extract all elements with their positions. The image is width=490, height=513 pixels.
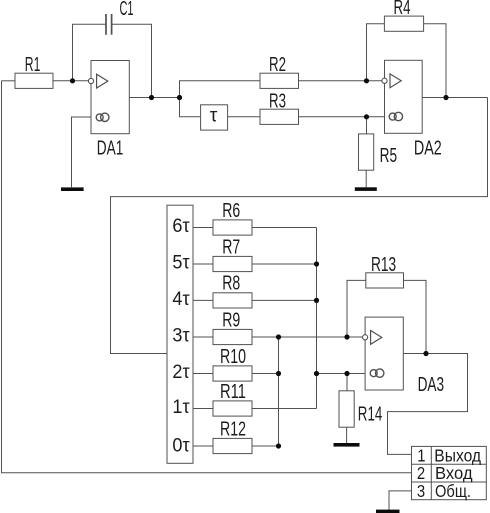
wire feed from DA2 output down and left to delay line input [111, 98, 488, 354]
svg-text:R3: R3 [269, 90, 286, 112]
wire R14 top lead [346, 374, 348, 391]
wire R9 output to DA3 inverting input [252, 336, 363, 338]
wire tau output to R3 [228, 116, 260, 118]
wire R12 output to left bus [252, 445, 279, 447]
svg-text:DA1: DA1 [97, 137, 124, 159]
wire DA1 lower input to ground [72, 117, 92, 187]
wire R4 feedback left vertical [367, 24, 385, 81]
resistor R11 [213, 401, 252, 416]
resistor R2 [260, 73, 299, 88]
resistor R10 [213, 366, 252, 381]
wire R13 feedback left lead [347, 280, 366, 337]
wire connector pin 3 (Общ.) to ground [389, 491, 412, 510]
wire C1 feedback left vertical and top [73, 24, 107, 81]
wire branch up to R2 [180, 81, 261, 98]
ground bar below DA1 [61, 187, 84, 191]
resistor R9 [213, 329, 252, 344]
op-amp DA2 triangle [390, 74, 401, 88]
wire R13 right lead down to DA3 output [404, 280, 427, 353]
node junction dot R10/left bus [276, 371, 281, 376]
node junction dot R1/DA1 input [70, 78, 75, 83]
wire tap 5τ stub [193, 263, 213, 265]
svg-text:3τ: 3τ [172, 324, 190, 346]
svg-text:1: 1 [417, 446, 425, 465]
wire R6 output to right bus [252, 227, 317, 229]
svg-text:Вход: Вход [435, 464, 473, 483]
svg-text:R7: R7 [222, 235, 240, 258]
svg-text:R14: R14 [358, 403, 382, 425]
svg-text:C1: C1 [120, 0, 134, 20]
svg-text:0τ: 0τ [172, 434, 190, 456]
capacitor C1 plates [106, 14, 112, 35]
ground bar below R5 [355, 187, 377, 191]
wire R1 left lead [2, 80, 16, 82]
op-amp DA1 infinity symbol [96, 113, 109, 121]
node junction dot R4/DA2 output [443, 95, 448, 100]
node junction dot R3/R5/DA2 input [364, 114, 369, 119]
wire C1 right lead down to DA1 output [112, 24, 152, 97]
svg-text:DA2: DA2 [414, 136, 442, 159]
wire tap 0τ stub [193, 445, 213, 447]
node junction dot R8/right bus [314, 298, 319, 303]
node junction dot C1/DA1 output [149, 95, 154, 100]
svg-text:5τ: 5τ [172, 251, 190, 273]
resistor R12 [213, 438, 252, 453]
connector table outline [412, 446, 487, 499]
node junction dot R7/right bus [314, 261, 319, 266]
node junction dot R14/DA3 lower input [344, 371, 349, 376]
wire left summing bus [278, 337, 280, 446]
svg-text:2: 2 [417, 464, 425, 483]
svg-text:4τ: 4τ [172, 288, 190, 310]
op-amp DA1 input circle [88, 78, 93, 83]
resistor R4 [384, 16, 423, 31]
wire R14 bottom lead to ground [346, 427, 348, 443]
op-amp DA1 box [91, 61, 129, 134]
op-amp DA3 triangle [371, 331, 382, 345]
wire R2 output to DA2 inverting input [299, 80, 383, 82]
svg-text:1τ: 1τ [172, 396, 190, 418]
wire R3 output to DA2 lower input [299, 116, 385, 118]
wire R5 bottom lead to ground [365, 170, 367, 187]
node junction dot R12/left bus [276, 443, 281, 448]
wire R10 output to left bus [252, 373, 279, 375]
svg-text:R12: R12 [220, 417, 246, 440]
svg-text:R10: R10 [220, 344, 246, 367]
op-amp DA3 infinity symbol [370, 369, 384, 377]
wire R8 output to right bus [252, 299, 317, 301]
wire R4 right lead down to DA2 output [424, 24, 446, 98]
svg-text:R8: R8 [222, 271, 240, 294]
ground bar below connector pin 3 [376, 510, 400, 513]
svg-text:Общ.: Общ. [435, 482, 471, 502]
op-amp DA2 infinity symbol [389, 112, 402, 120]
svg-text:2τ: 2τ [172, 361, 190, 383]
op-amp DA2 box [385, 60, 423, 133]
resistor R3 [260, 109, 299, 124]
delay line tap box [167, 205, 193, 463]
resistor R5 [359, 134, 374, 170]
wire tap 6τ stub [193, 227, 213, 229]
resistor R14 [339, 391, 354, 427]
wire branch down to tau block [180, 98, 201, 117]
wire R5 top lead [366, 117, 368, 134]
wire tap 4τ stub [193, 299, 213, 301]
svg-text:DA3: DA3 [418, 373, 445, 395]
op-amp DA3 input circle [363, 335, 368, 340]
svg-text:3: 3 [417, 482, 425, 501]
resistor R7 [213, 256, 252, 271]
resistor R1 [15, 73, 53, 88]
node junction dot DA1 output branch [177, 95, 182, 100]
svg-text:R13: R13 [371, 252, 396, 275]
resistor R8 [213, 293, 252, 308]
op-amp DA1 triangle [97, 74, 108, 88]
ground bar below R14 [334, 443, 360, 447]
wire right summing bus [316, 228, 318, 409]
svg-text:R11: R11 [220, 380, 246, 403]
op-amp DA3 box [365, 317, 403, 390]
wire R1 right lead to DA1 input [53, 80, 89, 82]
wire right bus to DA3 lower input [317, 373, 366, 375]
svg-text:R4: R4 [394, 0, 411, 19]
svg-text:6τ: 6τ [172, 215, 190, 237]
wire R11 output to right bus [252, 408, 317, 410]
wire tap 1τ stub [193, 408, 213, 410]
svg-text:R6: R6 [222, 198, 240, 221]
wire DA1 output [129, 97, 179, 99]
wire tap 2τ stub [193, 373, 213, 375]
wire DA2 output [422, 97, 487, 99]
wire DA3 output to connector pin 1 (Выход) [388, 354, 468, 455]
svg-text:Выход: Выход [434, 445, 481, 465]
node junction dot R2/R4/DA2 input [364, 78, 369, 83]
svg-text:R1: R1 [25, 53, 41, 76]
svg-text:R5: R5 [380, 143, 397, 166]
resistor R13 [366, 273, 404, 288]
node junction dot R13/DA3 output [423, 351, 428, 356]
svg-text:τ: τ [210, 106, 218, 127]
resistor R6 [213, 220, 252, 235]
svg-text:R9: R9 [222, 308, 240, 331]
node junction dot right bus/DA3 lower input [314, 371, 319, 376]
wire tap 3τ stub [193, 336, 213, 338]
svg-text:R2: R2 [269, 53, 286, 75]
node junction dot R9/left bus [276, 334, 281, 339]
wire R7 output to right bus [252, 263, 317, 265]
delay block τ [201, 105, 228, 130]
op-amp DA2 input circle [382, 78, 387, 83]
connector table dividers [412, 446, 487, 499]
wire left rail from R1 input down to connector pin 2 (Вход) [2, 81, 412, 473]
node junction dot R13/DA3 inverting input [344, 334, 349, 339]
